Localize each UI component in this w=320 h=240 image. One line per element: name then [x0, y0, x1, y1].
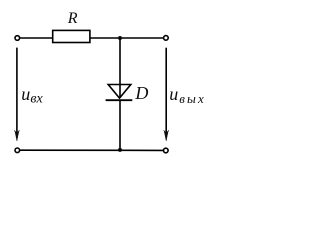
- wire top-left to resistor: [20, 37, 53, 39]
- svg-text:R: R: [67, 10, 78, 27]
- node junction bottom: [118, 148, 122, 152]
- wire u_vyx arrow shaft: [165, 48, 167, 135]
- terminal top-left: [15, 36, 20, 41]
- wire junction top to diode: [119, 38, 121, 98]
- terminal bottom-left: [15, 148, 20, 153]
- svg-text:D: D: [134, 83, 148, 103]
- terminal bottom-right: [164, 148, 169, 153]
- node arrowhead u_vyx: [164, 130, 169, 141]
- diode D: [106, 85, 133, 101]
- wire resistor to terminal top-right: [90, 37, 163, 39]
- wire bottom: [20, 149, 163, 151]
- wire diode to bottom junction: [119, 100, 121, 150]
- node arrowhead u_vx: [15, 130, 20, 141]
- wire u_vx arrow shaft: [16, 48, 18, 135]
- resistor R: [53, 30, 90, 42]
- node junction top: [118, 36, 122, 40]
- terminal top-right: [164, 36, 169, 41]
